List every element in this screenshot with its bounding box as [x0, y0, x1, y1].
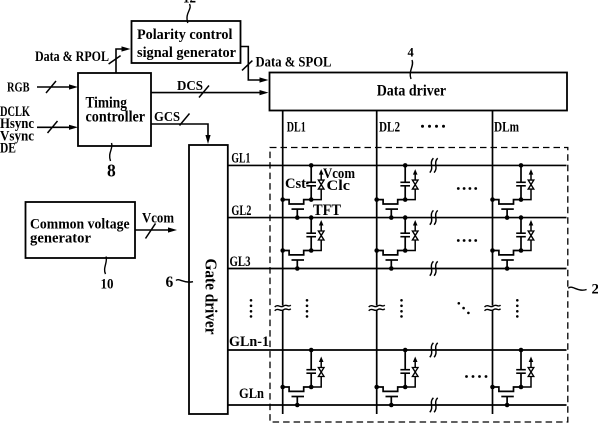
- svg-text:Cst: Cst: [285, 176, 306, 192]
- svg-text:Clc: Clc: [327, 178, 351, 194]
- svg-text:Data & SPOL: Data & SPOL: [256, 55, 332, 71]
- svg-text:TFT: TFT: [313, 202, 341, 219]
- svg-text:GLn: GLn: [239, 386, 265, 402]
- svg-text:GCS: GCS: [154, 110, 180, 125]
- svg-text:Polarity control: Polarity control: [137, 27, 232, 43]
- svg-text:Vcom: Vcom: [142, 211, 174, 227]
- svg-text:GL2: GL2: [231, 203, 251, 219]
- svg-text:controller: controller: [86, 109, 146, 126]
- svg-text:8: 8: [107, 161, 116, 181]
- svg-text:6: 6: [166, 274, 174, 291]
- svg-text:10: 10: [101, 277, 114, 293]
- svg-text:generator: generator: [30, 231, 91, 247]
- svg-text:Gate driver: Gate driver: [202, 259, 221, 335]
- svg-text:DL2: DL2: [379, 120, 400, 136]
- svg-text:Data & RPOL: Data & RPOL: [35, 49, 109, 65]
- svg-text:2: 2: [592, 282, 598, 298]
- svg-text:RGB: RGB: [7, 80, 30, 95]
- svg-text:DCS: DCS: [177, 79, 203, 94]
- svg-text:GLn-1: GLn-1: [229, 334, 269, 350]
- svg-text:DLm: DLm: [494, 120, 519, 136]
- svg-text:Data driver: Data driver: [377, 83, 447, 100]
- svg-text:4: 4: [408, 46, 415, 60]
- svg-text:GL3: GL3: [230, 254, 251, 270]
- svg-text:DL1: DL1: [287, 120, 306, 136]
- svg-text:DE: DE: [0, 140, 16, 156]
- svg-text:GL1: GL1: [231, 151, 250, 167]
- svg-text:signal generator: signal generator: [137, 45, 236, 61]
